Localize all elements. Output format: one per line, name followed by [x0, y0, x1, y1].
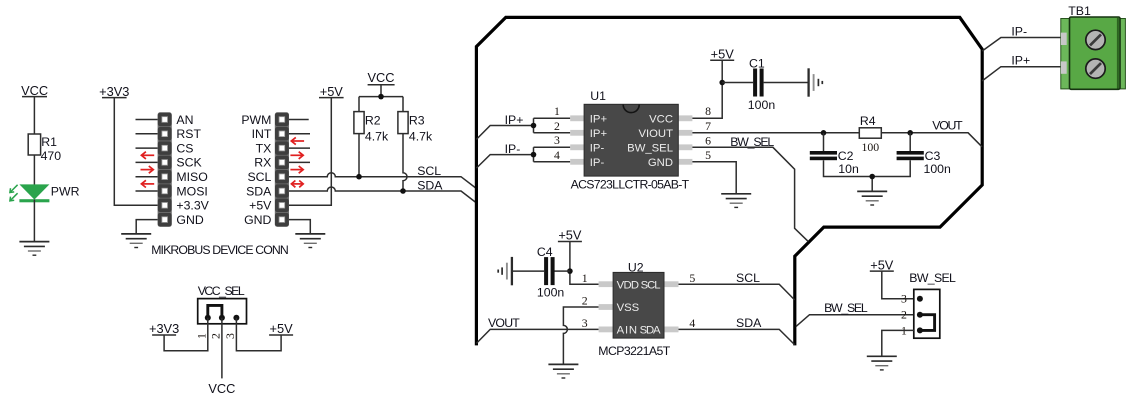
red arrow out (RX/SCL)	[290, 166, 303, 173]
wire R4 to VOUT exit	[881, 133, 982, 147]
svg-text:VIOUT: VIOUT	[638, 128, 673, 140]
svg-text:IP-: IP-	[590, 157, 605, 169]
wire IP+ to pins 1,2	[534, 118, 571, 133]
svg-text:IP-: IP-	[590, 142, 605, 154]
svg-text:+3V3: +3V3	[149, 321, 179, 336]
svg-text:U2: U2	[628, 260, 644, 274]
ground (C2/C3)	[857, 191, 887, 205]
power flag +3V3 (VCC_SEL)	[149, 321, 179, 336]
svg-text:VOUT: VOUT	[932, 118, 963, 132]
ground (U2 VSS)	[548, 364, 578, 378]
junction IP+	[531, 123, 537, 129]
junction C3/VOUT	[907, 130, 913, 136]
svg-text:BW_SEL: BW_SEL	[627, 142, 673, 154]
svg-text:R1: R1	[41, 135, 57, 149]
svg-text:R3: R3	[409, 114, 425, 128]
red arrow in (MISO/MOSI)	[141, 180, 154, 187]
jumper VCC_SEL shunt 1-2	[208, 305, 222, 317]
wire +5V to junction	[721, 60, 723, 82]
terminal block TB1	[1061, 17, 1126, 89]
wire pin5 GND to ground	[692, 162, 736, 194]
red arrow out (TX/RX)	[290, 152, 303, 159]
svg-text:SCL: SCL	[736, 271, 760, 285]
svg-text:BW_SEL: BW_SEL	[909, 271, 956, 285]
ground (right header)	[295, 234, 325, 248]
svg-text:3: 3	[901, 292, 907, 306]
svg-text:VCC: VCC	[21, 83, 48, 98]
svg-text:C2: C2	[838, 149, 854, 163]
net entry IP- to TB1	[982, 38, 1061, 52]
wire pin6 BW_SEL to boundary	[692, 147, 808, 241]
jumper BW_SEL shunt 1-2	[920, 315, 935, 331]
svg-text:10n: 10n	[838, 162, 859, 176]
svg-text:SDA: SDA	[417, 179, 443, 193]
svg-text:R4: R4	[860, 114, 876, 128]
svg-text:VCC: VCC	[208, 381, 235, 396]
capacitor C3	[897, 151, 924, 160]
wire +5V rail to +5V pin	[289, 98, 331, 206]
resistor R4	[859, 128, 881, 138]
svg-text:IP+: IP+	[590, 113, 608, 125]
svg-text:1: 1	[554, 104, 560, 118]
isolation boundary outline	[476, 17, 982, 345]
wire stub CS	[136, 147, 158, 149]
junction VCC split	[378, 94, 384, 100]
wire R2 to SCL	[358, 134, 360, 177]
svg-text:SDA: SDA	[736, 316, 762, 330]
svg-text:IP+: IP+	[505, 113, 524, 127]
net entry IP- at boundary	[476, 155, 533, 169]
capacitor C4	[544, 257, 555, 285]
svg-text:SCL: SCL	[417, 164, 441, 178]
wire BW_SEL pin1 to ground	[882, 330, 914, 356]
svg-text:1: 1	[582, 271, 588, 285]
svg-text:IP-: IP-	[1011, 24, 1027, 38]
svg-text:100n: 100n	[748, 98, 776, 112]
power flag +5V (U2)	[558, 228, 582, 243]
svg-text:VCC_SEL: VCC_SEL	[198, 284, 245, 298]
svg-text:PWR: PWR	[51, 184, 80, 198]
ground (left header)	[121, 234, 151, 248]
wire GND pin to ground (left header)	[136, 220, 157, 234]
wire stub PWM	[289, 119, 309, 121]
svg-text:2: 2	[209, 333, 223, 339]
junction R2/SCL	[356, 174, 362, 180]
wire C1 to chassis ground	[764, 82, 809, 84]
svg-text:3: 3	[554, 133, 560, 147]
svg-text:C1: C1	[749, 57, 765, 71]
power flag +5V (U1)	[710, 46, 734, 61]
wire LED to ground	[33, 200, 35, 242]
wire stub SCK	[136, 161, 158, 163]
svg-text:1: 1	[194, 333, 208, 339]
svg-text:100n: 100n	[537, 285, 565, 299]
capacitor C1	[753, 69, 764, 97]
wire VCC to R2/R3 split	[359, 85, 403, 112]
junction C2/VIOUT	[821, 130, 827, 136]
wire stub INT	[289, 133, 310, 135]
svg-text:MOSI: MOSI	[176, 184, 207, 198]
svg-text:MCP3221A5T: MCP3221A5T	[598, 344, 670, 358]
wire IP- to pins 3,4	[534, 147, 571, 162]
svg-text:MISO: MISO	[176, 170, 207, 184]
wire junction to C1	[722, 82, 753, 84]
svg-text:TB1: TB1	[1068, 4, 1091, 18]
junction ground rail	[869, 174, 875, 180]
svg-text:+5V: +5V	[558, 228, 582, 243]
svg-text:4.7k: 4.7k	[365, 129, 389, 143]
svg-text:100: 100	[862, 140, 880, 154]
jumper VCC_SEL body	[198, 299, 247, 324]
resistor R1	[28, 134, 40, 155]
wire junction to C4	[555, 270, 570, 272]
wire C4 to chassis ground	[512, 270, 544, 272]
svg-text:+5V: +5V	[711, 46, 735, 61]
net entry IP+ to TB1	[982, 67, 1061, 81]
wire SDA from header to boundary (hop over +5V rail)	[289, 187, 476, 203]
junction +5V/C1	[719, 80, 725, 86]
svg-text:SDA: SDA	[640, 325, 661, 337]
svg-text:BW_SEL: BW_SEL	[824, 301, 868, 315]
svg-text:C4: C4	[537, 245, 553, 259]
red arrow out (SCK/MISO)	[141, 166, 154, 173]
svg-text:+5V: +5V	[320, 84, 344, 99]
svg-text:VSS: VSS	[617, 302, 640, 314]
svg-text:VCC: VCC	[649, 113, 673, 125]
svg-text:5: 5	[689, 271, 695, 285]
power flag +5V (right header)	[319, 84, 344, 99]
power flag +3V3 (left header)	[99, 84, 129, 99]
svg-text:2: 2	[901, 308, 907, 322]
wire VIOUT to C2	[823, 133, 825, 151]
chassis ground (C4, mirrored)	[498, 257, 512, 285]
svg-text:6: 6	[705, 133, 711, 147]
LED PWR (green)	[10, 184, 50, 202]
svg-text:VCC: VCC	[367, 70, 394, 85]
wire +5V to BW_SEL pin3	[882, 271, 914, 299]
wire stub TX	[289, 147, 310, 149]
svg-text:GND: GND	[648, 157, 673, 169]
svg-text:TX: TX	[256, 141, 272, 155]
net entry IP+ at boundary	[476, 126, 533, 140]
svg-text:470: 470	[41, 149, 62, 163]
svg-text:8: 8	[705, 104, 711, 118]
wire stub RX	[289, 161, 310, 163]
power flag VCC (pull-ups)	[367, 70, 394, 85]
wire C2/C3 ground rail	[824, 160, 911, 191]
jumper VCC_SEL pin dots	[205, 315, 211, 321]
svg-text:4.7k: 4.7k	[409, 129, 433, 143]
wire GND pin to ground (right header)	[289, 220, 310, 234]
svg-text:+5V: +5V	[249, 199, 272, 213]
power flag VCC (top-left)	[21, 83, 48, 98]
svg-text:2: 2	[582, 294, 588, 308]
junction IP-	[531, 152, 537, 158]
net entry VOUT at boundary	[476, 329, 598, 343]
wire SCL from header to boundary (hop over +5V rail)	[289, 173, 476, 189]
svg-text:PWM: PWM	[241, 113, 271, 127]
svg-text:3: 3	[223, 333, 237, 339]
wire pin5 SCL to boundary	[679, 284, 795, 300]
jumper BW_SEL body	[914, 289, 940, 338]
chassis ground (C1)	[809, 68, 823, 96]
svg-text:R2: R2	[365, 114, 381, 128]
svg-text:+5V: +5V	[270, 321, 294, 336]
svg-text:SDA: SDA	[246, 184, 272, 198]
ADC U2 body (MCP3221A5T)	[599, 272, 679, 338]
svg-text:ACS723LLCTR-05AB-T: ACS723LLCTR-05AB-T	[571, 177, 690, 191]
power flag +5V (VCC_SEL)	[269, 321, 293, 336]
svg-text:5: 5	[705, 148, 711, 162]
red arrow bidir (SCL/SDA)	[291, 181, 303, 188]
wire stub AN	[136, 119, 158, 121]
svg-text:+3V3: +3V3	[99, 84, 129, 99]
wire VCC_SEL pin1 to +3V3	[164, 318, 208, 351]
svg-text:AN: AN	[176, 113, 193, 127]
svg-text:+5V: +5V	[870, 257, 894, 272]
svg-text:AIN: AIN	[617, 325, 638, 337]
wire VCC_SEL pin3 to +5V	[236, 318, 281, 351]
wire pin4 SDA to boundary	[679, 329, 795, 344]
wire stub RST	[136, 133, 158, 135]
red arrow in (INT/TX)	[291, 137, 304, 144]
junction R3/SDA	[400, 188, 406, 194]
ground (BW_SEL)	[867, 356, 897, 370]
svg-text:4: 4	[554, 148, 560, 162]
wire R1 to LED	[33, 155, 35, 185]
wire R3 to SDA with hop over SCL	[403, 134, 407, 191]
jumper BW_SEL pin dots	[917, 296, 923, 302]
svg-text:C3: C3	[925, 149, 941, 163]
svg-text:VOUT: VOUT	[488, 316, 520, 330]
wire stub MISO	[136, 176, 158, 178]
wire pin8 VCC to +5V junction	[692, 83, 722, 119]
svg-text:GND: GND	[244, 213, 271, 227]
resistor R2	[354, 112, 364, 134]
wire pin7 VIOUT to R4	[692, 132, 859, 134]
wire +5V to U2 pin1	[570, 242, 599, 285]
svg-text:GND: GND	[176, 213, 203, 227]
svg-text:3: 3	[582, 316, 588, 330]
svg-text:SCL: SCL	[247, 170, 271, 184]
svg-text:100n: 100n	[924, 162, 952, 176]
svg-text:IP+: IP+	[590, 128, 608, 140]
svg-text:CS: CS	[176, 141, 193, 155]
wire VCC_SEL pin2 to VCC	[221, 318, 223, 379]
red arrow in (CS/SCK)	[141, 152, 154, 159]
connector P2 right strip (mikroBUS)	[275, 112, 289, 227]
ground (below LED)	[19, 242, 49, 256]
svg-text:U1: U1	[590, 89, 606, 103]
ground (U1 pin5)	[721, 194, 751, 208]
power flag +5V (BW_SEL)	[870, 257, 894, 272]
svg-text:+3.3V: +3.3V	[176, 199, 209, 213]
svg-text:SCK: SCK	[176, 156, 202, 170]
net entry BW_SEL from boundary	[796, 315, 914, 327]
capacitor C2	[810, 151, 837, 160]
resistor R3	[398, 112, 408, 134]
svg-text:VDD: VDD	[617, 279, 640, 291]
wire +3V3 rail to +3.3V pin	[114, 98, 157, 206]
op-amp U1 body (ACS723 current sensor)	[570, 104, 692, 176]
wire stub MOSI	[136, 190, 158, 192]
wire VCC to R1	[33, 97, 35, 134]
wire C3 top	[909, 133, 911, 151]
connector P1 left strip (mikroBUS)	[158, 112, 172, 227]
svg-text:2: 2	[554, 119, 560, 133]
wire pin2 VSS to ground (hop over VOUT)	[563, 307, 598, 364]
svg-text:4: 4	[689, 316, 695, 330]
svg-text:RST: RST	[176, 127, 201, 141]
svg-text:7: 7	[705, 119, 711, 133]
svg-text:INT: INT	[252, 127, 272, 141]
svg-text:IP-: IP-	[505, 142, 521, 156]
svg-text:MIKROBUS DEVICE CONN: MIKROBUS DEVICE CONN	[151, 243, 289, 257]
svg-text:SCL: SCL	[641, 279, 661, 291]
svg-text:RX: RX	[254, 156, 271, 170]
junction +5V/C4	[567, 268, 573, 274]
svg-text:IP+: IP+	[1011, 54, 1030, 68]
